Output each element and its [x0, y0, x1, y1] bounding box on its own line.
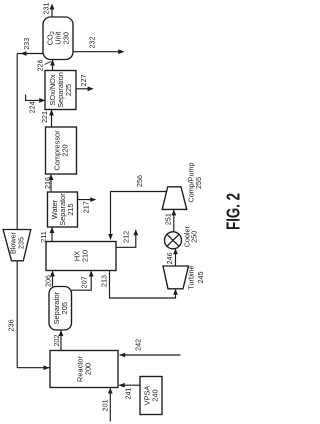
svg-text:213: 213: [100, 275, 109, 287]
svg-text:212: 212: [122, 231, 131, 243]
svg-text:207: 207: [80, 276, 89, 288]
svg-text:251: 251: [164, 213, 173, 225]
svg-text:250: 250: [190, 231, 199, 243]
svg-text:256: 256: [135, 175, 144, 187]
svg-text:200: 200: [84, 363, 93, 375]
svg-text:233: 233: [22, 38, 31, 50]
svg-text:206: 206: [44, 275, 53, 287]
svg-text:226: 226: [36, 59, 45, 71]
svg-text:FIG. 2: FIG. 2: [222, 193, 240, 230]
svg-text:Turbine: Turbine: [187, 265, 196, 289]
svg-text:215: 215: [66, 203, 75, 215]
svg-text:201: 201: [101, 399, 110, 411]
svg-text:211: 211: [39, 231, 48, 242]
svg-text:216: 216: [43, 177, 52, 189]
svg-text:217: 217: [82, 201, 91, 213]
svg-text:245: 245: [196, 272, 205, 284]
svg-text:205: 205: [60, 302, 69, 314]
svg-text:232: 232: [88, 37, 97, 49]
svg-text:246: 246: [165, 252, 174, 264]
svg-text:241: 241: [124, 388, 133, 400]
svg-text:225: 225: [64, 84, 73, 96]
svg-text:202: 202: [52, 335, 61, 347]
svg-text:231: 231: [42, 3, 51, 15]
svg-text:221: 221: [40, 111, 49, 123]
svg-text:242: 242: [134, 339, 143, 351]
svg-text:235: 235: [17, 237, 26, 249]
svg-text:210: 210: [81, 250, 90, 262]
svg-text:227: 227: [79, 75, 88, 87]
svg-text:255: 255: [194, 177, 203, 189]
svg-text:236: 236: [7, 319, 16, 331]
svg-text:224: 224: [28, 101, 37, 113]
svg-text:220: 220: [61, 144, 70, 156]
svg-text:230: 230: [62, 32, 71, 44]
svg-text:240: 240: [151, 389, 160, 401]
